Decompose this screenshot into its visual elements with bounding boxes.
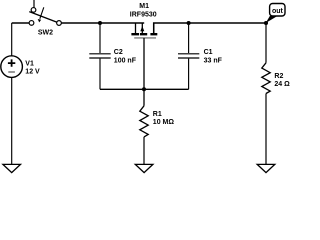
svg-text:R1: R1	[153, 111, 162, 118]
wire output rail to C1 top plate	[188, 23, 190, 53]
resistor R2 24 Ohm	[262, 63, 290, 94]
wire output node down to R2 top	[265, 23, 267, 63]
ground (below R2)	[257, 164, 275, 172]
svg-text:SW2: SW2	[38, 30, 53, 37]
junction dot at C1 branch on output rail	[187, 21, 191, 25]
svg-text:10 MΩ: 10 MΩ	[153, 119, 175, 126]
svg-text:C2: C2	[114, 49, 123, 56]
svg-text:33 nF: 33 nF	[204, 57, 223, 64]
wire V1 bottom to ground	[11, 77, 13, 164]
capacitor C1 33 nF	[178, 49, 223, 64]
svg-text:IRF9530: IRF9530	[130, 11, 157, 18]
wire C2 bottom plate to gate rail	[99, 59, 101, 90]
switch SW2	[29, 0, 61, 37]
junction dot at gate/R1 node	[142, 87, 146, 91]
wire from switch right terminal to MOSFET drain (left rail)	[59, 22, 144, 24]
wire R1 bottom to ground	[143, 137, 145, 165]
wire input rail to C2 top plate	[99, 23, 101, 53]
wire gate node to R1 top	[143, 89, 145, 106]
wire R2 bottom to ground	[265, 94, 267, 165]
transistor M1 IRF9530 (P-channel MOSFET)	[130, 3, 158, 38]
wire gate of M1 down to gate node	[143, 38, 145, 89]
svg-text:C1: C1	[204, 49, 213, 56]
gate bottom rail wire	[100, 88, 189, 90]
wire from MOSFET source to output node (right rail)	[154, 23, 266, 33]
voltage source V1 12 V	[1, 56, 40, 78]
junction dot at C2 branch on input rail	[98, 21, 102, 25]
node out: flag pointer	[266, 16, 278, 23]
svg-text:V1: V1	[25, 61, 34, 68]
resistor R1 10 MOhm	[140, 106, 175, 137]
svg-text:M1: M1	[139, 3, 149, 10]
ground (below R1)	[135, 164, 153, 172]
wire C1 bottom plate to gate rail	[188, 59, 190, 90]
svg-text:R2: R2	[274, 73, 283, 80]
ground (below V1)	[3, 164, 21, 172]
capacitor C2 100 nF	[89, 49, 136, 64]
svg-text:100 nF: 100 nF	[114, 57, 137, 64]
wire from switch left terminal to V1 top	[12, 22, 32, 24]
svg-text:12 V: 12 V	[25, 68, 40, 75]
svg-text:out: out	[272, 8, 284, 15]
node out: flag label	[270, 4, 285, 17]
node out: junction dot	[264, 21, 268, 25]
svg-text:24 Ω: 24 Ω	[274, 81, 290, 88]
